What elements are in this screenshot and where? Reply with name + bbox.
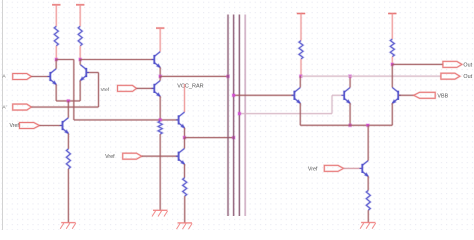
wire P5 to R4 [391, 14, 393, 40]
junction Q9 collector on Out' wire [348, 74, 352, 78]
junction node N1 (Q1 collector) [54, 58, 58, 62]
wire port A to Q1 base [31, 75, 49, 77]
wire feedback down [73, 60, 75, 120]
wire Q10 emitter to R7 [367, 176, 369, 190]
wire Q9 collector [349, 76, 351, 87]
junction node N4 [158, 74, 162, 78]
resistor R4 (output load 2) [390, 39, 394, 57]
wire Q8 collector [299, 76, 301, 87]
wire Vref1 to Q3 base [40, 124, 62, 126]
resistor R7 (right tail) [366, 190, 370, 210]
wire Q2 emitter [79, 80, 81, 101]
junction bus1 tap [226, 74, 230, 78]
wire R6 to ground G2 [159, 134, 161, 210]
junction node N3 (tail) [66, 99, 70, 103]
port A' symbol [13, 104, 32, 110]
power vdd symbol P1 (left rail 1) [52, 4, 60, 6]
junction Q10 collector tap [366, 123, 370, 127]
svg-text:Out: Out [463, 74, 472, 80]
ground symbol G3 [177, 223, 193, 229]
wire N3 to Q3 collector [67, 101, 69, 118]
transistor Q8 [292, 88, 301, 104]
wire Q8 emitter down [299, 103, 301, 125]
wire N4 to bus line 1 [160, 75, 228, 77]
bus line 1 [227, 15, 229, 217]
wire Q6 collector stub (net VCC_RAR) [183, 84, 185, 112]
junction node N6 [183, 136, 187, 140]
resistor R6 (middle) [158, 121, 162, 134]
svg-text:Vref: Vref [101, 87, 110, 92]
svg-text:VCC_RAR: VCC_RAR [177, 84, 203, 90]
wire node N8 to Out port [392, 63, 443, 65]
wire N8 to Q11 collector [391, 64, 393, 87]
port Vref3 symbol [123, 153, 142, 159]
wire R8 to ground G3 [184, 196, 186, 223]
port Vref2 symbol [118, 85, 137, 91]
wire feedback to Q6 base [74, 119, 178, 121]
svg-text:Vref: Vref [10, 123, 20, 129]
bus line 4 [244, 15, 246, 217]
junction node N7 [299, 74, 303, 78]
power vdd symbol P2 (left rail 2) [76, 4, 84, 6]
wire Vref2 to Q5 base [137, 87, 154, 89]
power vdd symbol P3 (middle) [156, 27, 164, 29]
port Vref1 symbol [20, 123, 40, 129]
transistor Q11 (VBB clamp, mirrored) [392, 88, 401, 104]
wire Q2 collector [79, 60, 81, 65]
port VBB symbol [414, 92, 436, 98]
wire A' riser up [97, 73, 99, 108]
wire Vref3 to Q7 base [142, 155, 178, 157]
wire bus3 jog riser [331, 95, 333, 113]
wire R3 bottom to node N7 [300, 59, 302, 76]
transistor Q5 [152, 81, 161, 97]
wire feedback N1 across [56, 58, 74, 60]
resistor R1 (left load 1) [54, 26, 58, 46]
wire Q7 emitter to R8 [183, 164, 185, 178]
junction node N5 [158, 118, 162, 122]
svg-text:Vref: Vref [105, 154, 115, 160]
svg-text:A': A' [2, 104, 6, 110]
wire Q3 emitter to R5 [67, 133, 69, 149]
wire Vref4 to Q10 base [344, 167, 362, 169]
wire R4 bottom to node N8 [391, 57, 393, 65]
wire P1 to R1 [55, 5, 57, 27]
ground symbol G2 [152, 210, 168, 216]
wire jog to Q9 base [332, 94, 344, 96]
wire R2 bottom to node N2 [79, 46, 81, 60]
wire node N7 to Out' port [301, 75, 441, 77]
port Out' symbol [441, 73, 460, 79]
wire Q4 emitter to node N4 [159, 67, 161, 76]
port Out symbol [443, 61, 462, 67]
wire Q11 base to VBB port [399, 94, 414, 96]
junction bus2 upper tap [232, 93, 236, 97]
wire Q1 emitter [55, 84, 57, 101]
junction node N8 [390, 62, 394, 66]
power vdd symbol P4 (right mid) [297, 12, 305, 14]
svg-text:Out: Out [463, 62, 472, 68]
transistor Q4 (emitter follower) [152, 52, 161, 68]
junction bus3 tap [237, 112, 241, 116]
power vdd symbol P5 (right) [388, 12, 396, 14]
wire bus3 jog horizontal [239, 112, 332, 114]
junction node N2 (Q2 collector) [78, 58, 82, 62]
wire port A' to riser [31, 106, 98, 108]
wire P4 to R3 [300, 14, 302, 41]
junction bus2 lower tap [232, 136, 236, 140]
wire R7 to ground G4 [367, 210, 369, 222]
wire bus2 to Q8 base [234, 94, 294, 96]
wire Q6 emitter to node N6 [183, 128, 185, 138]
transistor Q1 (diff pair left) [48, 69, 57, 85]
transistor Q3 (left tail source) [60, 118, 69, 134]
resistor R5 (left tail) [66, 149, 70, 169]
wire Q10 collector up [367, 125, 369, 160]
wire R1 bottom to node N1 [55, 46, 57, 60]
transistor Q9 [341, 88, 350, 104]
wire emitter join Q1-Q2 [56, 100, 80, 102]
wire Q5 emitter down [159, 96, 161, 120]
wire N6 to bus line 2 [185, 136, 234, 138]
svg-text:VBB: VBB [437, 93, 448, 99]
junction Q9 emitter on join [348, 123, 352, 127]
wire P2 to R2 [79, 5, 81, 27]
port A symbol [13, 74, 32, 80]
resistor R8 (middle tail) [183, 178, 187, 196]
wire N6 to Q7 collector [183, 138, 185, 149]
resistor R2 (left load 2) [78, 26, 82, 46]
port Vref4 symbol [324, 165, 343, 171]
wire A' top to Q2 base [87, 71, 99, 73]
wire Q9 emitter down [349, 103, 351, 125]
ground symbol G1 [60, 223, 76, 229]
bus line 3 [238, 15, 240, 217]
wire N4 to Q5 collector [159, 76, 161, 80]
transistor Q6 [176, 112, 185, 128]
transistor Q2 (diff pair right, mirrored) [80, 65, 89, 81]
resistor R3 (output load 1) [299, 41, 303, 59]
bus line 2 [232, 15, 234, 217]
transistor Q7 [176, 148, 185, 164]
wire Q11 emitter down [391, 103, 393, 125]
transistor Q10 (right tail source) [360, 161, 369, 177]
wire P3 to Q4 collector [159, 28, 161, 52]
wire R5 to ground [67, 169, 69, 223]
wire N2 to Q4 base [80, 58, 154, 60]
svg-text:Vref: Vref [308, 166, 318, 172]
wire emitter join right [300, 124, 392, 126]
ground symbol G4 [360, 223, 376, 229]
wire Q1 collector [55, 60, 57, 69]
